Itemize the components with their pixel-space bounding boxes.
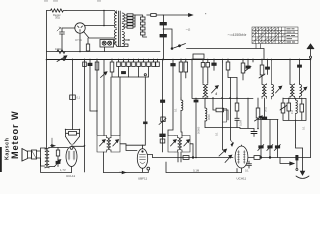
rail main bus [47, 59, 311, 61]
resistor R18 [56, 148, 59, 161]
voltage tap selector column2 [135, 15, 147, 37]
IF2 trimmer arrows [100, 140, 119, 146]
osc coil B trimmer arrow [301, 87, 307, 93]
grid RC bridge tube1 [65, 129, 80, 146]
wire tube3 anode right [248, 157, 254, 159]
trimmer capacitor C15 [258, 120, 264, 158]
label tube rectifier [75, 38, 82, 42]
capacitor C10 [194, 98, 198, 158]
wire tube1 top [73, 145, 85, 147]
wire anode left [62, 27, 75, 29]
trimmer arrow tube1 [55, 160, 61, 167]
resistor R7 [110, 59, 114, 77]
output transformer windings [45, 148, 49, 168]
wire mains branch [164, 29, 173, 49]
resistor R15 arrow [280, 98, 287, 120]
wire lamp connections [105, 43, 117, 52]
wire OT to tube1 [49, 148, 68, 167]
wire right edge vertical [310, 59, 312, 158]
oscillator coil A secondary [272, 59, 274, 99]
svg-text:UY11: UY11 [75, 38, 82, 42]
switch S1 [171, 44, 264, 60]
svg-text:0,1M: 0,1M [193, 169, 200, 173]
osc coil A trimmer arrow [276, 86, 282, 93]
resistor R11 [241, 59, 245, 80]
svg-text:1M: 1M [290, 110, 294, 114]
variable cap arrow tube3 [225, 155, 232, 162]
wire right cluster corner [295, 120, 297, 145]
svg-text:0,1: 0,1 [77, 96, 81, 100]
capacitor C1 electrolytic [57, 27, 65, 52]
svg-text:UBF11: UBF11 [138, 177, 147, 181]
wire detector header [258, 119, 278, 121]
resistor R21 wavy [205, 98, 207, 128]
svg-text:∼Ω: ∼Ω [186, 28, 192, 32]
wire drop x162 to IF3 [162, 59, 164, 152]
resistor R10a to IF1 [201, 59, 205, 83]
IF transformer 1 windings [203, 83, 208, 99]
fuse F1 [147, 14, 164, 17]
capacitor C13 [56, 161, 60, 166]
wire drop x222 [222, 59, 224, 62]
wire tube2 anode right [148, 155, 153, 158]
svg-text:3000: 3000 [207, 114, 211, 120]
capacitor C3 mains [160, 34, 166, 37]
svg-text:∼=4150kHz: ∼=4150kHz [227, 33, 246, 37]
wire AVC arrow lower [280, 158, 294, 166]
label resistor top [53, 13, 61, 20]
trimmer capacitor C16b [274, 120, 280, 158]
capacitor C12 [262, 98, 266, 119]
label 1.7V [60, 168, 66, 172]
oscillator coil B secondary [300, 84, 302, 99]
IF3 right loop [182, 136, 190, 153]
value labels vertical [174, 107, 306, 136]
label tube1 [66, 174, 75, 178]
transformer T1 secondary windings [122, 13, 124, 47]
wire IF3 bottom down [178, 152, 181, 162]
label rail resistor [55, 47, 61, 51]
IF3 trimmer arrows [171, 140, 190, 146]
junction dots misc [61, 10, 259, 147]
IF transformer 2 left loop [97, 136, 104, 153]
wire drop x290 [289, 59, 291, 84]
capacitor C17 vertical bar [296, 155, 298, 160]
variable capacitor arm x222 [219, 62, 227, 156]
wire left vertical long [45, 11, 47, 150]
label frequency [227, 33, 246, 37]
wire heater riser x104 [103, 11, 105, 27]
wire IF3 to detector [190, 144, 193, 158]
resistor R19 on detector line [183, 156, 194, 160]
resistor R3 on rail [57, 50, 65, 54]
capacitor C4 [88, 63, 92, 65]
resistor R9b tall [184, 59, 188, 78]
transformer heater taps [117, 39, 130, 46]
wire right cluster y120 [283, 99, 306, 121]
potentiometer R12 [259, 59, 265, 84]
IF2 windings [104, 136, 111, 153]
capacitor C9 [266, 59, 270, 75]
resistor R9a tall [179, 59, 183, 98]
svg-text:0,1: 0,1 [174, 108, 178, 112]
capacitor C6 [161, 100, 165, 102]
power tube V3 UCL11 [66, 147, 77, 173]
svg-text:0,1: 0,1 [302, 126, 306, 130]
wire drop x237 [236, 78, 237, 99]
resistor R8 [160, 139, 165, 143]
wire drop x104 diode [101, 60, 108, 136]
capacitor C7 [160, 134, 165, 137]
mixer tube V1 UCH11 [235, 145, 248, 173]
ladder drops with resistors [111, 59, 159, 136]
wire y172 middle with arrow [104, 171, 149, 173]
wire heater top [85, 25, 115, 27]
svg-text:0,5M: 0,5M [239, 120, 243, 126]
brand text Meteor W [10, 110, 20, 159]
wire drop x97 [96, 59, 98, 135]
rectifier tube U4 UY11 [75, 23, 85, 33]
wire right cluster y98 [283, 98, 306, 100]
svg-text:1,7V: 1,7V [60, 168, 66, 172]
wire mains arrow [163, 14, 193, 17]
svg-text:UCL11: UCL11 [66, 174, 75, 178]
resistor R13 [213, 98, 228, 120]
wire speaker to OT [37, 148, 46, 166]
capacitor C18 column [159, 117, 166, 125]
wire x40 down [40, 158, 42, 172]
wire mains vertical [163, 15, 165, 60]
resistor R23 wavy [181, 98, 183, 136]
label R4 value [77, 96, 81, 100]
IF transformer 3 left loop [168, 136, 175, 153]
bracket wire AVC [166, 162, 237, 173]
wire table drops [256, 44, 261, 49]
resistor R1 mains dropper [47, 9, 67, 12]
svg-text:50000: 50000 [197, 126, 201, 134]
IF1 trimmer arrow [212, 86, 219, 93]
label AVC resistor [193, 169, 200, 173]
field tap arrow [51, 138, 55, 147]
resistor R17 [300, 98, 304, 120]
label mfd [245, 169, 249, 173]
coil L5 wavy [296, 98, 298, 120]
capacitor C20 [212, 59, 216, 70]
wire drop x297 [298, 59, 302, 84]
antenna [307, 44, 314, 60]
oscillator coil pair B windings [290, 84, 295, 99]
potentiometer arrow on bus [57, 56, 67, 62]
capacitor C8 trimmer [245, 59, 251, 71]
resistor R6 [95, 62, 99, 70]
svg-text:0,1: 0,1 [215, 132, 219, 136]
svg-text:4: 4 [215, 91, 218, 96]
wire mid horizontal y98 [192, 98, 253, 100]
capacitor C14 below tube3 [247, 161, 252, 168]
capacitor C5 [122, 72, 126, 74]
wire drop x253 [252, 59, 254, 62]
rail B+ upper [47, 51, 161, 53]
resistor R20 [254, 156, 311, 160]
grid cap tube2 [147, 167, 150, 172]
wire arm x230 [231, 78, 234, 147]
IF2 right loop [111, 136, 120, 153]
label ohms near mains [186, 28, 192, 32]
svg-text:50Ω: 50Ω [264, 107, 268, 112]
label tube2 [138, 177, 147, 181]
wire top to transformer [66, 11, 117, 14]
wire heater bottom [84, 32, 115, 39]
top margin specks [44, 1, 206, 15]
wire detector line y157.5 [153, 157, 234, 159]
wire x302 horizontal stub [296, 145, 303, 148]
wire cathode down [79, 33, 81, 51]
wire drop x192 [191, 59, 193, 98]
label 4 [215, 91, 218, 96]
capacitor C2 mains [160, 22, 166, 25]
ground earth symbol [296, 148, 309, 178]
brand text Kapsch [5, 138, 11, 160]
wire x297 down [296, 160, 298, 171]
transformer T1 core [119, 11, 121, 47]
fuse box on bus [193, 54, 204, 59]
resistor R10b to IF1 [206, 59, 210, 83]
voltage tap resistors column1 [125, 14, 136, 28]
wire mid horizontal y127 [205, 128, 254, 129]
resistor R16 [287, 98, 291, 120]
wire drop x145 with cap [143, 74, 148, 145]
speaker magnet box [32, 150, 37, 159]
wire tube2 top [126, 144, 143, 146]
junction dots detector [260, 157, 271, 159]
speaker [22, 149, 32, 162]
IF3 windings [175, 136, 182, 153]
capacitor C19 [168, 60, 175, 136]
resistor R10 [226, 59, 237, 78]
resistor R4 [70, 95, 76, 100]
capacitor C11 [251, 129, 257, 137]
resistor R5 [83, 62, 87, 67]
svg-text:0,1: 0,1 [245, 169, 249, 173]
wire drop x248 [247, 98, 249, 128]
connection table grid [252, 27, 298, 44]
svg-text:100Ω: 100Ω [55, 47, 61, 51]
wire drop x72 [72, 59, 74, 130]
potentiometer R14 [255, 98, 263, 129]
svg-text:Meteor W: Meteor W [10, 110, 20, 159]
wire drop x84 long [84, 59, 86, 172]
svg-text:30Ω: 30Ω [55, 16, 60, 20]
IF-detector tube V2 UBF11 [137, 145, 147, 172]
scan artifact left edge [0, 147, 2, 172]
junction dots on main bus [46, 59, 312, 61]
wire IF2 to tube2 [120, 144, 137, 151]
resistor R2 vertical [86, 38, 89, 52]
resistor R22 [235, 98, 239, 128]
wire bottom left y172 [41, 172, 72, 174]
oscillator coil pair A windings [262, 84, 267, 99]
trimmer capacitor C16 [267, 120, 273, 158]
dial lamp box [100, 40, 114, 48]
transformer T1 primary winding [114, 11, 116, 47]
label tube3 [237, 177, 247, 181]
svg-text:UCH11: UCH11 [237, 177, 247, 181]
wire drop x90 [90, 59, 98, 112]
wire IF2 bottom down [103, 152, 105, 173]
